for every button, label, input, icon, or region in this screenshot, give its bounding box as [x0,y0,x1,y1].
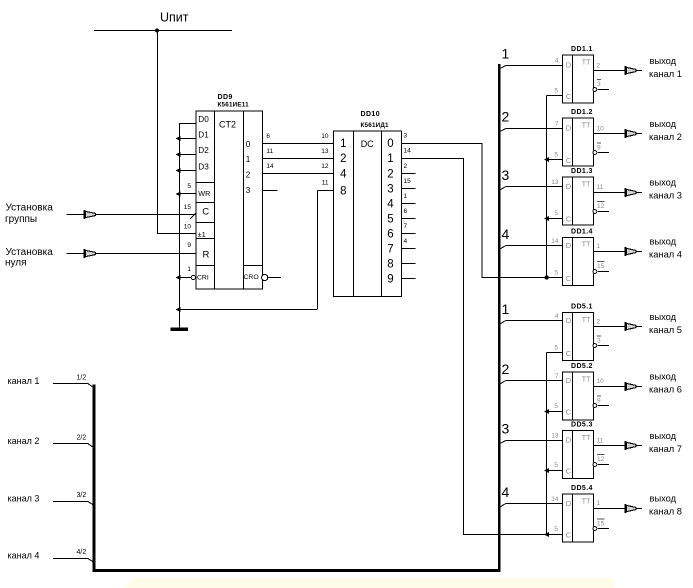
svg-text:3: 3 [502,421,510,437]
svg-text:C: C [566,92,572,101]
svg-text:канал 4: канал 4 [649,250,682,260]
svg-text:9: 9 [387,274,393,286]
svg-text:1/2: 1/2 [77,375,87,382]
wire C input DD1.1 [547,95,563,97]
wire канал 1 [53,383,88,385]
svg-text:канал 8: канал 8 [649,507,682,517]
svg-text:DD5.2: DD5.2 [571,363,593,370]
decoder DD10 K561ID1 [334,131,402,297]
pin number 9 (inverted Q) [597,143,601,151]
svg-text:5: 5 [554,152,558,159]
svg-text:12: 12 [597,456,605,463]
amplifier output channel 8 [625,504,642,513]
bus entry wire to DD5.4 D [499,504,506,508]
wire Uпит power rail [94,30,232,32]
junction arrow clock chain at DD1.3 [544,216,549,221]
svg-text:5: 5 [554,270,558,277]
wire Q output DD1.3 [594,192,625,194]
svg-text:Установка: Установка [6,247,54,258]
amplifier output channel 2 [625,129,642,138]
D-latch DD1.4 [563,229,594,286]
svg-text:C: C [566,349,572,358]
junction dot clock chain DD1 [544,275,548,279]
svg-text:TT: TT [582,181,591,188]
svg-text:5: 5 [387,214,393,226]
wire to ±1 input pin 10 [157,233,196,235]
bus entry канал 3 [88,502,94,505]
svg-text:DD10: DD10 [361,111,381,118]
wire Q output DD1.4 [594,251,625,253]
pin number 15 (inverted Q) [597,262,605,270]
svg-text:5: 5 [554,403,558,410]
svg-text:D: D [566,124,572,133]
svg-text:0: 0 [246,140,251,149]
wire DD10 out1 (pin14) [402,158,463,160]
svg-text:14: 14 [551,496,559,503]
bus entry wire to DD1.3 D [499,187,506,191]
svg-text:1: 1 [597,500,601,507]
svg-text:3: 3 [404,132,408,139]
junction arrow clock chain at DD5.3 [544,468,549,473]
wire D input DD1.3 [506,186,563,188]
wire Q output DD1.1 [594,70,625,72]
wire Q output DD5.2 [594,386,625,388]
wire Q output DD1.2 [594,133,625,135]
wire канал 2 [53,443,88,445]
svg-text:канал 4: канал 4 [8,550,40,560]
junction dot on power rail [155,28,159,32]
inversion circle CRO [262,274,268,280]
svg-text:нуля: нуля [5,258,27,269]
svg-text:D: D [566,61,572,70]
D-latch DD5.3 [563,422,594,479]
svg-text:канал 7: канал 7 [649,444,682,454]
amplifier on set-zero line [84,249,96,258]
svg-text:±1: ±1 [198,230,206,239]
svg-text:WR: WR [198,189,210,198]
wire out0 to DD1 clock chain [482,277,563,279]
svg-text:D1: D1 [198,130,209,139]
wire set-group to C input [67,214,197,216]
svg-text:D: D [566,499,572,508]
svg-text:11: 11 [322,180,329,187]
svg-text:канал 5: канал 5 [649,325,682,335]
svg-text:2: 2 [387,169,393,181]
left vertical bus [93,385,96,573]
wire D input DD1.2 [506,128,563,130]
wire DD10 output stub [402,203,416,205]
inversion circle DD5.1 [593,344,597,348]
wire DD9 out2 to DD10 in4 [263,173,334,175]
svg-text:0: 0 [387,138,393,150]
svg-text:4: 4 [555,58,559,65]
svg-text:CRI: CRI [197,274,209,281]
svg-text:6: 6 [404,208,408,215]
svg-text:К561ИД1: К561ИД1 [361,122,390,129]
wire inverted output stub DD1.3 [597,211,609,213]
dynamic input slash at C [191,210,199,219]
highlight band in DD9 [244,262,263,265]
junction arrow clock chain at DD5.2 [544,409,549,414]
amplifier output channel 6 [625,382,642,391]
svg-text:TT: TT [582,498,591,505]
wire inverted output stub DD1.1 [597,89,609,91]
svg-text:CT2: CT2 [219,120,236,130]
bus entry канал 4 [88,559,94,562]
svg-text:13: 13 [551,179,559,186]
svg-text:12: 12 [321,163,329,170]
wire C input DD5.3 [547,470,563,472]
pin number 3 (inverted Q) [597,336,601,344]
svg-text:15: 15 [597,263,605,270]
svg-text:D: D [566,436,572,445]
svg-text:выход: выход [650,312,677,322]
svg-text:2: 2 [502,109,510,125]
svg-text:TT: TT [582,317,591,324]
svg-text:DD1.2: DD1.2 [571,109,593,116]
svg-text:2: 2 [340,153,346,165]
bus entry wire to DD1.1 D [499,66,506,69]
wire DD10 output stub [402,248,416,250]
svg-text:R: R [203,250,210,261]
svg-text:3: 3 [387,184,393,196]
wire riser to DD10 pin 11 [317,191,319,310]
svg-text:3: 3 [502,167,510,183]
inversion circle CRI pin 1 [191,275,195,279]
svg-text:1: 1 [340,138,346,150]
wire C input DD5.2 [547,411,563,413]
svg-text:канал 2: канал 2 [649,132,682,142]
svg-text:1: 1 [502,46,510,62]
svg-text:TT: TT [582,376,591,383]
svg-text:5: 5 [554,88,558,95]
wire WR input [179,193,196,195]
inversion circle DD5.3 [593,463,597,467]
svg-text:4: 4 [555,313,559,320]
D-latch DD5.1 [563,304,594,361]
svg-text:выход: выход [650,56,677,66]
wire inverted output stub DD5.2 [597,405,609,407]
svg-text:11: 11 [597,184,604,191]
wire канал 3 [53,501,88,503]
wire D input DD5.4 [506,503,563,505]
svg-text:Uпит: Uпит [160,11,189,25]
wire DD10 output stub [402,188,416,190]
svg-text:14: 14 [266,163,274,170]
svg-text:2: 2 [597,63,601,70]
svg-text:6: 6 [387,229,393,241]
svg-text:15: 15 [404,178,412,185]
svg-text:4/2: 4/2 [77,549,87,556]
svg-text:5: 5 [554,210,558,217]
svg-text:выход: выход [650,178,677,188]
amplifier on set-group line [84,210,96,219]
svg-text:канал 1: канал 1 [8,376,40,386]
svg-text:8: 8 [387,259,393,271]
svg-text:канал 3: канал 3 [649,191,682,201]
svg-text:7: 7 [404,223,408,230]
wire C input DD5.1 [547,352,563,354]
svg-text:выход: выход [650,494,677,504]
bus entry wire to DD5.1 D [499,321,506,325]
svg-text:TT: TT [582,435,591,442]
svg-text:D0: D0 [198,115,209,124]
wire D2 input [179,154,196,156]
svg-text:К561ИЕ11: К561ИЕ11 [218,102,250,109]
svg-text:C: C [566,408,572,417]
svg-text:11: 11 [266,148,273,155]
D-latch DD1.3 [563,168,594,225]
svg-text:DD1.3: DD1.3 [571,168,593,175]
svg-text:2/2: 2/2 [77,435,87,442]
wire Q output DD5.4 [594,508,625,510]
svg-text:DC: DC [361,139,374,149]
pin number 12 (inverted Q) [597,455,605,463]
svg-text:DD5.3: DD5.3 [571,422,593,429]
svg-text:9: 9 [187,242,191,249]
junction arrow clock chain DD5.4 [544,532,549,537]
arrow at ground rail junction [175,307,180,312]
svg-text:1: 1 [597,243,601,250]
wire Q output DD5.1 [594,326,625,328]
svg-text:3: 3 [597,81,601,88]
svg-text:7: 7 [555,121,559,128]
wire out1 to DD5 clock chain [463,534,563,536]
svg-text:TT: TT [582,242,591,249]
svg-text:4: 4 [404,238,408,245]
bus entry wire to DD1.2 D [499,129,506,132]
amplifier output channel 3 [625,188,642,197]
inversion circle DD1.3 [593,210,597,214]
svg-text:14: 14 [404,147,412,154]
wire D0 input [179,123,196,125]
wire DD10 output stub [402,233,416,235]
pin number 3 (inverted Q) [597,80,601,88]
pin number 12 (inverted Q) [597,202,605,210]
wire inverted output stub DD1.4 [597,271,609,273]
svg-text:9: 9 [597,145,601,152]
svg-text:10: 10 [597,378,605,385]
bus entry канал 2 [88,444,94,448]
svg-text:канал 3: канал 3 [8,493,40,503]
amplifier output channel 4 [625,247,642,256]
D-latch DD1.1 [563,46,594,103]
wire DD10 output stub [402,263,416,265]
svg-text:6: 6 [266,133,270,140]
wire DD9 out1 to DD10 in2 [263,158,334,160]
wire out0 vertical [481,143,483,278]
D-latch DD5.2 [563,363,594,420]
pin number 15 (inverted Q) [597,519,605,527]
inversion circle DD1.2 [593,151,597,155]
inversion circle DD5.4 [593,527,597,531]
wire DD9 out0 to DD10 in1 [263,143,334,145]
svg-text:2: 2 [404,163,408,170]
svg-text:4: 4 [340,169,347,181]
svg-text:4: 4 [502,484,510,500]
wire inverted output stub DD1.2 [597,152,609,154]
pin number 9 (inverted Q) [597,396,601,404]
svg-text:7: 7 [555,373,559,380]
bus entry wire to DD1.4 D [499,246,506,250]
svg-text:3: 3 [246,186,251,195]
wire DD10 output stub [402,173,416,175]
svg-text:10: 10 [597,126,605,133]
svg-text:выход: выход [650,431,677,441]
svg-text:D: D [566,376,572,385]
svg-text:7: 7 [387,244,393,256]
svg-text:выход: выход [650,372,677,382]
svg-text:выход: выход [650,237,677,247]
bus entry канал 1 [88,384,94,388]
svg-text:9: 9 [597,398,601,405]
svg-text:Установка: Установка [6,203,54,214]
bus entry wire to DD5.2 D [499,381,506,385]
svg-text:1: 1 [187,266,191,273]
svg-text:DD1.1: DD1.1 [571,46,593,53]
wire out1 vertical [462,158,464,534]
svg-text:C: C [566,531,572,540]
wire D input DD1.1 [506,65,563,67]
wire clock chain DD5 group [546,353,548,535]
svg-text:3/2: 3/2 [77,492,87,499]
svg-text:C: C [202,207,209,218]
svg-text:12: 12 [597,203,605,210]
svg-text:3: 3 [597,338,601,345]
right vertical bus [498,64,500,572]
wire set-zero to R input [67,253,197,255]
svg-text:DD5.1: DD5.1 [571,304,593,311]
bottom horizontal bus [93,569,501,572]
wire Uпит drop to pin 10 [157,30,159,233]
svg-text:D: D [566,241,572,250]
svg-text:C: C [566,274,572,283]
svg-text:D3: D3 [198,163,209,172]
svg-text:2: 2 [502,361,510,377]
wire into DD10 input 8 [318,190,334,192]
svg-text:5: 5 [554,526,558,533]
amplifier output channel 7 [625,441,642,450]
svg-text:DD5.4: DD5.4 [571,485,593,492]
svg-text:14: 14 [551,238,559,245]
highlight band bottom [122,578,614,588]
inversion circle DD5.2 [593,404,597,408]
arrow WR to ground rail [175,192,180,197]
junction arrow clock chain at DD1.2 [544,157,549,162]
svg-text:15: 15 [597,521,605,528]
svg-text:1: 1 [246,155,251,164]
wire C input DD1.4 [547,277,563,279]
arrow D2 to ground rail [175,152,180,157]
svg-text:D2: D2 [198,146,209,155]
wire inverted output stub DD5.3 [597,464,609,466]
svg-text:4: 4 [387,199,394,211]
svg-text:10: 10 [321,133,329,140]
inversion circle DD1.1 [593,88,597,92]
wire D3 input [179,170,196,172]
wire D input DD5.1 [506,320,563,322]
svg-text:5: 5 [554,345,558,352]
svg-text:4: 4 [502,226,510,242]
wire clock chain DD1 group [546,96,548,278]
svg-text:C: C [566,467,572,476]
amplifier output channel 1 [625,66,642,75]
svg-text:13: 13 [551,433,559,440]
wire D input DD5.3 [506,440,563,442]
arrow D1 to ground rail [175,136,180,141]
wire DD9 out3 stub [263,190,278,192]
svg-text:8: 8 [340,186,346,198]
wire inverted output stub DD5.1 [597,345,609,347]
bus entry wire to DD5.3 D [499,441,506,444]
svg-text:TT: TT [582,59,591,66]
svg-text:D: D [566,182,572,191]
amplifier output channel 5 [625,322,642,331]
wire D1 input [179,138,196,140]
svg-text:15: 15 [184,204,192,211]
wire CRO stub [268,277,281,279]
wire CRI to ground rail [179,277,191,279]
svg-text:11: 11 [597,438,604,445]
svg-text:5: 5 [187,183,191,190]
arrow D3 to ground rail [175,168,180,173]
counter DD9 K561IE11 [196,111,263,289]
wire DD10 out0 (pin3) [402,143,482,145]
D-latch DD1.2 [563,109,594,166]
wire C input DD5.4 [547,534,563,536]
svg-text:канал 6: канал 6 [649,385,682,395]
svg-text:1: 1 [404,193,408,200]
svg-text:C: C [566,156,572,165]
svg-text:канал 2: канал 2 [8,436,40,446]
wire D input DD5.2 [506,380,563,382]
wire ground to DD10 input 8 [179,309,318,311]
svg-text:1: 1 [387,153,393,165]
svg-text:выход: выход [650,119,677,129]
svg-text:13: 13 [321,148,329,155]
wire D input DD1.4 [506,245,563,247]
wire DD10 output stub [402,278,416,280]
wire ground rail [179,123,181,328]
svg-text:TT: TT [582,122,591,129]
svg-text:2: 2 [597,319,601,326]
wire Q output DD5.3 [594,445,625,447]
svg-text:D: D [566,316,572,325]
wire C input DD1.3 [547,218,563,220]
svg-text:1: 1 [502,301,510,317]
wire канал 4 [53,558,88,560]
wire C input DD1.2 [547,159,563,161]
wire DD10 output stub [402,218,416,220]
svg-text:5: 5 [554,462,558,469]
svg-text:канал 1: канал 1 [649,69,682,79]
svg-text:10: 10 [184,224,192,231]
svg-text:DD1.4: DD1.4 [571,229,593,236]
arrow CRI to ground rail [175,275,180,280]
svg-text:DD9: DD9 [218,94,233,101]
svg-text:2: 2 [246,170,251,179]
svg-text:CRO: CRO [244,274,259,281]
D-latch DD5.4 [563,485,594,542]
inversion circle DD1.4 [593,270,597,274]
svg-text:группы: группы [5,214,37,225]
svg-text:C: C [566,215,572,224]
ground [171,328,189,332]
wire inverted output stub DD5.4 [597,528,609,530]
